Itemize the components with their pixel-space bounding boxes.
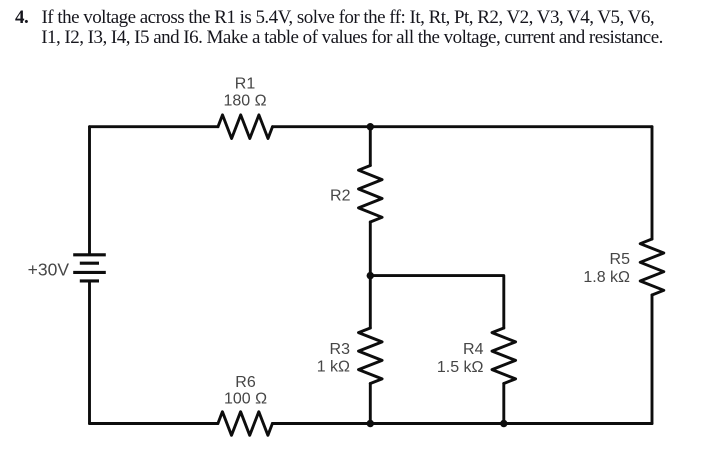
wire node B to R4 branch	[370, 276, 504, 328]
resistor R3	[359, 328, 383, 384]
wire left rail lower (battery -)	[88, 281, 91, 424]
svg-text:R3: R3	[330, 341, 351, 358]
wire R2 branch top	[369, 127, 372, 166]
wire R4 to bottom rail	[502, 384, 505, 424]
svg-text:R4: R4	[463, 341, 484, 358]
svg-text:100 Ω: 100 Ω	[224, 391, 267, 408]
svg-text:R2: R2	[330, 188, 351, 205]
svg-text:1.5 kΩ: 1.5 kΩ	[437, 359, 484, 376]
wire right rail upper	[651, 127, 654, 239]
wire R2 to node B	[369, 222, 372, 276]
problem statement text	[15, 7, 28, 29]
wire top rail left segment	[90, 125, 219, 128]
resistor R4	[492, 328, 516, 384]
svg-text:R6: R6	[235, 374, 256, 391]
wire bottom rail left segment	[90, 422, 218, 425]
wire bottom rail right segment	[272, 422, 652, 425]
svg-text:180 Ω: 180 Ω	[223, 93, 266, 110]
wire node B to R3	[369, 276, 372, 328]
battery plate long top	[73, 253, 106, 256]
node junction bottom R4	[500, 420, 507, 427]
resistor R2	[359, 166, 383, 223]
svg-text:+30V: +30V	[28, 260, 70, 280]
resistor R1	[218, 115, 273, 139]
battery plate short	[80, 262, 99, 265]
wire left rail upper (battery +)	[88, 127, 91, 254]
node junction bottom R3	[367, 420, 374, 427]
svg-text:1 kΩ: 1 kΩ	[317, 358, 350, 375]
wire R3 to bottom rail	[369, 384, 372, 424]
svg-text:1.8 kΩ: 1.8 kΩ	[583, 269, 630, 286]
node junction top (R1/R2)	[367, 123, 374, 130]
wire top rail right segment	[273, 125, 653, 128]
svg-text:R1: R1	[235, 76, 256, 93]
battery V1 +30V	[73, 255, 106, 281]
resistor R5	[640, 239, 664, 295]
node junction B (R2/R3/R4)	[367, 272, 374, 279]
svg-text:R5: R5	[610, 251, 631, 268]
battery plate short bottom	[80, 279, 99, 282]
wire right rail lower	[651, 295, 654, 424]
battery plate long	[73, 271, 106, 274]
resistor R6	[218, 412, 273, 436]
